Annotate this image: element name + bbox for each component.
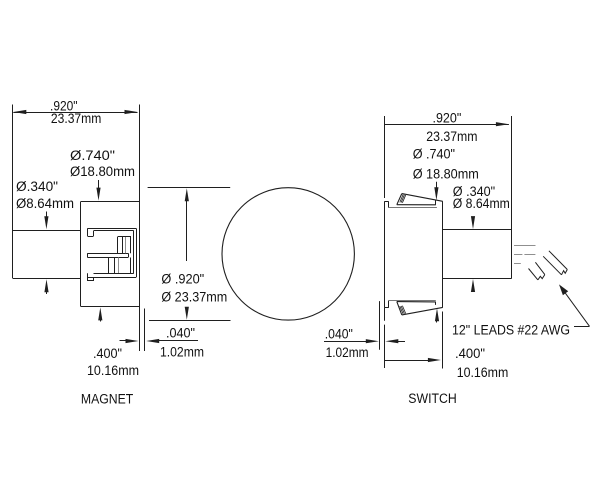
magnet .340 up arrow at body bottom xyxy=(46,285,48,294)
leads leader arrow xyxy=(563,290,589,326)
lead wire break piece 2 xyxy=(543,256,561,275)
svg-text:.400": .400" xyxy=(455,346,485,361)
svg-text:Ø18.80mm: Ø18.80mm xyxy=(70,164,135,179)
circle top extension line xyxy=(148,187,231,189)
switch plate right edge extension to .400 dim xyxy=(442,312,444,369)
svg-text:1.02mm: 1.02mm xyxy=(326,345,369,360)
switch left extension line xyxy=(384,116,386,198)
switch .340 up arrow at body bottom xyxy=(472,285,474,292)
magnet connector lower pin box xyxy=(108,258,110,274)
svg-text:Ø 18.80mm: Ø 18.80mm xyxy=(413,167,479,182)
svg-text:.040": .040" xyxy=(325,327,353,342)
magnet connector bottom bar xyxy=(94,273,134,275)
magnet top dimension line .920/23.37mm xyxy=(13,112,137,114)
magnet .340 leader arrow down to body top xyxy=(46,212,48,220)
magnet connector middle bar xyxy=(88,253,129,255)
lead wire break piece 1 xyxy=(529,269,538,280)
magnet left extension + body left edge xyxy=(12,105,14,279)
magnet .040 second extension line xyxy=(144,309,146,352)
svg-text:.920": .920" xyxy=(433,110,462,125)
lead dashes xyxy=(514,245,536,247)
switch .740 leader arrow down to tab xyxy=(436,182,438,190)
magnet connector top-left block xyxy=(87,228,89,236)
switch flange top edge xyxy=(388,207,437,209)
svg-text:MAGNET: MAGNET xyxy=(81,392,133,407)
svg-text:Ø.340": Ø.340" xyxy=(16,179,58,194)
switch .400 dimension line with right arrow xyxy=(385,360,428,362)
svg-text:Ø .740": Ø .740" xyxy=(413,146,456,161)
svg-text:10.16mm: 10.16mm xyxy=(457,365,509,380)
magnet connector right bar xyxy=(133,231,135,273)
svg-text:23.37mm: 23.37mm xyxy=(51,111,101,126)
circle bottom extension line xyxy=(149,320,231,322)
magnet .740 up arrow at flange bottom xyxy=(100,313,102,322)
switch .340 leader arrow down to body top xyxy=(472,217,474,220)
svg-text:Ø8.64mm: Ø8.64mm xyxy=(16,196,74,211)
svg-text:1.02mm: 1.02mm xyxy=(160,345,204,360)
svg-text:23.37mm: 23.37mm xyxy=(426,129,477,144)
svg-text:12" LEADS #22 AWG: 12" LEADS #22 AWG xyxy=(452,322,570,337)
switch .040 right-pointing arrow xyxy=(324,341,366,343)
svg-text:SWITCH: SWITCH xyxy=(408,391,456,406)
svg-text:.040": .040" xyxy=(166,325,195,340)
switch flange plate right edge xyxy=(442,201,444,307)
switch .040 extension line pair xyxy=(379,301,381,350)
switch body rectangle xyxy=(442,229,511,231)
switch top tab hatching xyxy=(400,195,403,203)
magnet connector detail: top bar xyxy=(88,228,137,230)
switch .740 up arrow at bottom tab xyxy=(436,314,438,323)
magnet connector bottom-left block xyxy=(87,273,89,281)
svg-text:Ø .920": Ø .920" xyxy=(161,272,204,287)
switch .040 left-pointing arrow xyxy=(391,341,405,343)
switch top dimension line with right arrow only xyxy=(385,124,509,126)
svg-text:Ø 8.64mm: Ø 8.64mm xyxy=(453,196,510,211)
magnet body rectangle xyxy=(13,230,81,232)
svg-text:Ø.740": Ø.740" xyxy=(70,148,115,163)
svg-text:.400": .400" xyxy=(93,346,122,361)
svg-text:Ø 23.37mm: Ø 23.37mm xyxy=(161,290,227,305)
magnet .040 left-pointing arrow xyxy=(152,340,198,342)
magnet .740 leader arrow down to flange top xyxy=(98,180,100,190)
circle diameter dimension line lower segment with down arrow xyxy=(186,308,188,310)
switch top snap tab wedge xyxy=(402,194,443,202)
switch bottom tab hatching xyxy=(400,306,403,314)
magnet .400/.040 dimension line with right arrow xyxy=(120,340,127,342)
circle diameter dimension line upper segment with up arrow xyxy=(186,198,188,261)
switch flange bottom edge xyxy=(388,300,436,302)
magnet connector upper pin box xyxy=(118,236,132,238)
switch front lip plate xyxy=(384,201,386,308)
magnet right extension + flange right edge xyxy=(139,105,141,352)
front view circle xyxy=(222,188,354,320)
magnet flange rectangle xyxy=(80,201,82,306)
switch right extension + body right edge xyxy=(511,116,513,279)
switch bottom snap tab wedge xyxy=(402,307,443,315)
svg-text:10.16mm: 10.16mm xyxy=(87,363,139,378)
